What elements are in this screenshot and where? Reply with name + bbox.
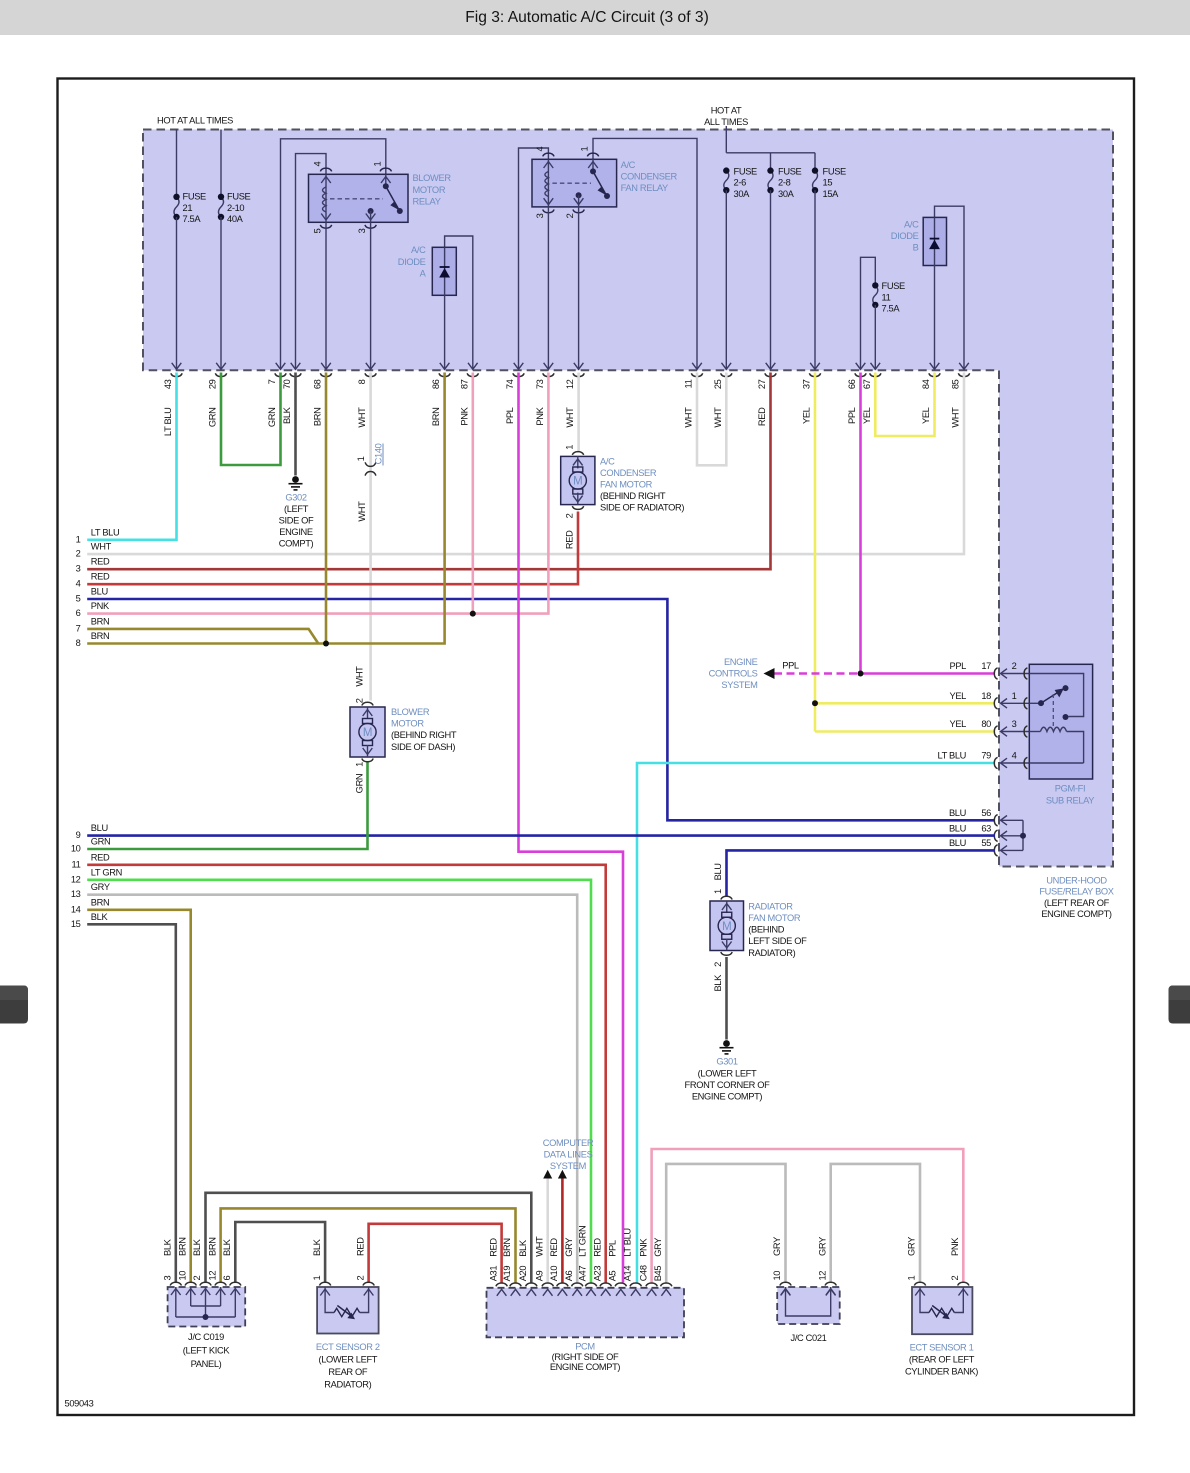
svg-text:RED: RED bbox=[549, 1238, 559, 1257]
svg-text:PNK: PNK bbox=[638, 1238, 648, 1257]
ect sensor 2 pins bbox=[319, 1282, 330, 1285]
svg-text:55: 55 bbox=[981, 838, 991, 848]
svg-text:BLOWER: BLOWER bbox=[413, 173, 452, 183]
svg-text:1: 1 bbox=[372, 162, 382, 167]
wire condenser motor RED to row4 bbox=[87, 512, 578, 585]
svg-text:5: 5 bbox=[76, 594, 81, 604]
wire C48 PNK to ECT1 bbox=[652, 1149, 964, 1283]
wire 29 internal bbox=[220, 217, 222, 369]
blu bus bracket bbox=[1022, 820, 1024, 850]
engine controls arrow bbox=[764, 668, 775, 679]
svg-text:RADIATOR: RADIATOR bbox=[748, 902, 793, 912]
svg-text:A19: A19 bbox=[502, 1266, 512, 1282]
svg-text:25: 25 bbox=[713, 379, 723, 389]
svg-text:14: 14 bbox=[71, 904, 81, 914]
svg-text:SIDE OF: SIDE OF bbox=[279, 516, 314, 526]
wire row8 BRN to 86 bbox=[87, 373, 444, 644]
svg-text:PNK: PNK bbox=[91, 601, 110, 611]
fuse 2-8 bbox=[768, 171, 773, 191]
wire row14 BRN to jc-c019 bbox=[87, 910, 191, 1282]
svg-text:ECT SENSOR 1: ECT SENSOR 1 bbox=[910, 1343, 974, 1353]
svg-text:BLU: BLU bbox=[949, 838, 966, 848]
svg-text:(LEFT: (LEFT bbox=[284, 504, 309, 514]
svg-text:2: 2 bbox=[1012, 661, 1017, 671]
svg-text:BLK: BLK bbox=[222, 1238, 232, 1256]
svg-text:COMPT): COMPT) bbox=[279, 539, 314, 549]
svg-text:RADIATOR): RADIATOR) bbox=[324, 1379, 371, 1389]
svg-text:YEL: YEL bbox=[802, 407, 812, 424]
svg-text:3: 3 bbox=[535, 213, 545, 218]
junction PPL 17 bbox=[858, 671, 864, 677]
svg-text:21: 21 bbox=[183, 203, 193, 213]
wire 68 BRN drop bbox=[325, 373, 328, 644]
wire 84 internal bbox=[934, 266, 936, 370]
svg-text:ECT SENSOR 2: ECT SENSOR 2 bbox=[316, 1342, 380, 1352]
svg-text:PPL: PPL bbox=[782, 661, 799, 671]
svg-text:1: 1 bbox=[76, 534, 81, 544]
svg-text:(LOWER LEFT: (LOWER LEFT bbox=[318, 1354, 377, 1364]
fuse 11 bbox=[873, 285, 878, 305]
svg-text:SYSTEM: SYSTEM bbox=[550, 1161, 586, 1171]
wire fuse21 feed bbox=[176, 130, 178, 197]
svg-text:12: 12 bbox=[71, 874, 81, 884]
svg-text:WHT: WHT bbox=[951, 407, 961, 428]
svg-text:37: 37 bbox=[802, 379, 812, 389]
j/c c019 box bbox=[168, 1287, 246, 1327]
svg-text:GRY: GRY bbox=[91, 882, 110, 892]
condenser relay pin 3 arc bbox=[543, 210, 554, 213]
svg-text:A/C: A/C bbox=[621, 160, 636, 170]
wire 25 internal bbox=[725, 190, 727, 369]
ground G302 bbox=[292, 476, 299, 483]
wire row13 GRY to A6 bbox=[87, 895, 577, 1283]
wire 85 WHT to row2 bbox=[87, 373, 964, 555]
pgm-fi link dashed bbox=[1052, 694, 1054, 728]
wire 67 internal bbox=[874, 305, 876, 369]
svg-text:GRN: GRN bbox=[208, 408, 218, 428]
a/c diode B box bbox=[923, 217, 946, 265]
wire 73 PNK to row6 bbox=[87, 373, 548, 614]
svg-text:WHT: WHT bbox=[357, 501, 367, 522]
radiator fan motor bbox=[710, 901, 744, 951]
svg-text:BLK: BLK bbox=[192, 1238, 202, 1256]
svg-text:UNDER-HOOD: UNDER-HOOD bbox=[1046, 876, 1107, 886]
svg-text:10: 10 bbox=[177, 1271, 187, 1281]
svg-text:12: 12 bbox=[817, 1271, 827, 1281]
svg-text:2: 2 bbox=[192, 1276, 202, 1281]
fuse 2-10 bbox=[219, 197, 224, 217]
svg-text:BLK: BLK bbox=[518, 1239, 528, 1257]
computer data arrow WHT bbox=[543, 1170, 552, 1179]
wire row12 LT GRN to A47 bbox=[87, 880, 591, 1283]
blower relay pin 3 bbox=[368, 208, 374, 214]
svg-text:PNK: PNK bbox=[535, 406, 545, 425]
wire B45 GRY to jc-c021 bbox=[666, 1164, 785, 1283]
j/c c021 pins bbox=[780, 1282, 791, 1285]
svg-text:10: 10 bbox=[772, 1271, 782, 1281]
svg-text:1: 1 bbox=[907, 1276, 917, 1281]
right edge tab bbox=[1169, 986, 1190, 1024]
wire YEL 18 row bbox=[815, 702, 995, 705]
svg-text:ENGINE COMPT): ENGINE COMPT) bbox=[1041, 909, 1112, 919]
connector C140 bbox=[365, 462, 376, 466]
under-hood fuse/relay box region bbox=[143, 130, 1113, 867]
svg-text:6: 6 bbox=[222, 1276, 232, 1281]
condenser motor pin2 arc bbox=[572, 506, 583, 509]
wire 12 WHT to condenser motor bbox=[577, 373, 580, 452]
svg-text:BLK: BLK bbox=[91, 912, 109, 922]
svg-text:(BEHIND RIGHT: (BEHIND RIGHT bbox=[600, 491, 666, 501]
svg-text:PANEL): PANEL) bbox=[191, 1359, 222, 1369]
ect sensor 1 box bbox=[912, 1287, 972, 1334]
svg-text:9: 9 bbox=[76, 830, 81, 840]
svg-text:2: 2 bbox=[354, 698, 364, 703]
svg-text:18: 18 bbox=[981, 691, 991, 701]
svg-text:RED: RED bbox=[488, 1238, 498, 1257]
junction YEL 18 bbox=[812, 700, 818, 706]
a/c diode A element bbox=[444, 247, 446, 295]
condenser relay pin 4 arc bbox=[543, 153, 554, 156]
left edge tab bbox=[0, 986, 28, 1024]
wire row7 BRN bbox=[87, 629, 318, 644]
junction row6 x87 bbox=[470, 611, 476, 617]
svg-text:BRN: BRN bbox=[91, 631, 110, 641]
ground G301 bbox=[723, 1040, 730, 1047]
blower relay pin 4 arc bbox=[320, 168, 331, 171]
svg-text:RED: RED bbox=[757, 407, 767, 426]
wire 74 PPL to A5 bbox=[519, 373, 624, 1283]
svg-text:G302: G302 bbox=[285, 493, 307, 503]
svg-text:A6: A6 bbox=[564, 1270, 574, 1281]
exit connector arcs bbox=[171, 373, 182, 376]
svg-text:SIDE OF DASH): SIDE OF DASH) bbox=[391, 742, 455, 752]
blower relay pin 1 arc bbox=[380, 168, 391, 171]
svg-text:(RIGHT SIDE OF: (RIGHT SIDE OF bbox=[552, 1352, 619, 1362]
svg-text:3: 3 bbox=[76, 564, 81, 574]
svg-text:PPL: PPL bbox=[505, 407, 515, 424]
svg-text:SUB RELAY: SUB RELAY bbox=[1046, 796, 1094, 806]
wire jc-c019 pin2 BLK to A20 bbox=[206, 1193, 532, 1283]
svg-text:BRN: BRN bbox=[431, 408, 441, 427]
fuse 15 bbox=[813, 171, 818, 191]
condenser relay pin 2 bbox=[576, 192, 582, 198]
svg-text:LT BLU: LT BLU bbox=[622, 1228, 632, 1257]
svg-text:BRN: BRN bbox=[177, 1237, 187, 1256]
svg-text:BLOWER: BLOWER bbox=[391, 707, 430, 717]
wire radiator BLK ground lead bbox=[725, 957, 728, 1040]
svg-text:40A: 40A bbox=[227, 214, 244, 224]
wire radiator BLU to pin55 bbox=[727, 850, 996, 897]
condenser relay pin 2 arc bbox=[573, 210, 584, 213]
pgm-fi switch bbox=[1029, 702, 1041, 704]
svg-text:HOT AT ALL TIMES: HOT AT ALL TIMES bbox=[157, 116, 233, 126]
svg-text:CONDENSER: CONDENSER bbox=[600, 468, 657, 478]
svg-text:A23: A23 bbox=[592, 1266, 602, 1282]
wire 43 internal bbox=[176, 217, 178, 369]
a/c diode B loop bbox=[935, 206, 965, 369]
svg-text:RED: RED bbox=[91, 572, 110, 582]
svg-text:(REAR OF LEFT: (REAR OF LEFT bbox=[909, 1355, 975, 1365]
svg-text:43: 43 bbox=[163, 379, 173, 389]
svg-text:27: 27 bbox=[757, 379, 767, 389]
condenser relay coil bbox=[547, 159, 549, 207]
svg-text:M: M bbox=[573, 476, 582, 488]
wire 8 WHT to blower bbox=[369, 373, 372, 701]
condenser motor pin1 arc bbox=[572, 452, 583, 455]
blower motor relay box bbox=[309, 174, 409, 222]
svg-text:509043: 509043 bbox=[65, 1399, 94, 1409]
svg-text:PNK: PNK bbox=[459, 406, 469, 425]
radiator motor pin2 arc bbox=[721, 952, 732, 955]
wire ECT2 pin2 RED to A31 bbox=[369, 1224, 502, 1283]
svg-text:FAN MOTOR: FAN MOTOR bbox=[600, 480, 653, 490]
wire row15 BLK to jc-c019 bbox=[87, 924, 176, 1282]
svg-text:1: 1 bbox=[713, 889, 723, 894]
svg-text:GRY: GRY bbox=[772, 1237, 782, 1256]
svg-text:J/C C021: J/C C021 bbox=[791, 1333, 827, 1343]
wire 70 BLK ground lead bbox=[294, 373, 297, 476]
blower relay switch bbox=[385, 174, 387, 186]
svg-text:7.5A: 7.5A bbox=[882, 304, 901, 314]
svg-text:PCM: PCM bbox=[575, 1342, 595, 1352]
radiator motor pin1 arc bbox=[721, 896, 732, 899]
svg-text:M: M bbox=[363, 727, 372, 739]
svg-text:CONDENSER: CONDENSER bbox=[621, 172, 678, 182]
svg-text:PGM-FI: PGM-FI bbox=[1055, 784, 1085, 794]
wire 11-25 WHT loop bbox=[697, 373, 726, 466]
wire PPL 17 row bbox=[861, 672, 996, 675]
svg-text:2: 2 bbox=[355, 1276, 365, 1281]
svg-text:GRY: GRY bbox=[907, 1237, 917, 1256]
svg-text:LT BLU: LT BLU bbox=[937, 751, 966, 761]
a/c condenser fan relay box bbox=[532, 159, 617, 207]
pgm-fi sub relay box bbox=[1029, 664, 1092, 779]
svg-text:DIODE: DIODE bbox=[398, 257, 426, 267]
fuse 21 bbox=[174, 197, 179, 217]
svg-text:8: 8 bbox=[76, 638, 81, 648]
svg-text:Fig 3: Automatic A/C Circuit (: Fig 3: Automatic A/C Circuit (3 of 3) bbox=[465, 9, 709, 26]
svg-text:63: 63 bbox=[981, 823, 991, 833]
svg-text:GRN: GRN bbox=[91, 837, 111, 847]
svg-text:SIDE OF RADIATOR): SIDE OF RADIATOR) bbox=[600, 503, 684, 513]
svg-text:7: 7 bbox=[267, 379, 277, 384]
wire 66 PPL drop bbox=[859, 373, 862, 674]
condenser relay switch bbox=[592, 159, 594, 171]
svg-text:WHT: WHT bbox=[534, 1236, 544, 1257]
svg-text:BLU: BLU bbox=[949, 808, 966, 818]
svg-text:J/C C019: J/C C019 bbox=[188, 1332, 224, 1342]
svg-text:LT BLU: LT BLU bbox=[163, 408, 173, 437]
svg-text:(BEHIND RIGHT: (BEHIND RIGHT bbox=[391, 730, 457, 740]
svg-text:GRY: GRY bbox=[653, 1238, 663, 1257]
ect sensor 1 pins bbox=[914, 1282, 925, 1285]
svg-text:4: 4 bbox=[535, 147, 545, 152]
svg-text:REAR OF: REAR OF bbox=[328, 1367, 368, 1377]
wire row10 GRN to blower bbox=[87, 761, 367, 849]
wire 43 LT BLU to row1 bbox=[87, 373, 176, 540]
svg-text:A/C: A/C bbox=[411, 245, 426, 255]
condenser relay link dashed bbox=[552, 182, 591, 184]
svg-text:WHT: WHT bbox=[565, 407, 575, 428]
svg-text:FUSE: FUSE bbox=[778, 166, 802, 176]
svg-text:67: 67 bbox=[862, 379, 872, 389]
fuse 2-6 bbox=[724, 171, 729, 191]
svg-text:BLK: BLK bbox=[312, 1238, 322, 1256]
wire 12 internal bbox=[578, 207, 580, 369]
svg-text:A5: A5 bbox=[608, 1270, 618, 1281]
wire row11 RED to A23 bbox=[87, 865, 606, 1283]
svg-text:2: 2 bbox=[565, 213, 575, 218]
svg-text:30A: 30A bbox=[778, 189, 795, 199]
svg-text:2: 2 bbox=[950, 1276, 960, 1281]
svg-text:3: 3 bbox=[357, 228, 367, 233]
svg-text:79: 79 bbox=[981, 751, 991, 761]
svg-text:2: 2 bbox=[76, 549, 81, 559]
svg-text:87: 87 bbox=[459, 379, 469, 389]
svg-text:B45: B45 bbox=[653, 1266, 663, 1282]
svg-text:(LEFT KICK: (LEFT KICK bbox=[183, 1346, 231, 1356]
wire 66 internal bbox=[861, 257, 876, 369]
svg-text:ENGINE: ENGINE bbox=[724, 657, 758, 667]
ect sensor 1 thermistor bbox=[920, 1287, 929, 1313]
wire condenser relay pin1 to 11 bbox=[593, 138, 697, 369]
svg-text:BRN: BRN bbox=[91, 616, 110, 626]
svg-text:74: 74 bbox=[505, 379, 515, 389]
pgm-fi switch feed bbox=[1029, 674, 1083, 717]
svg-text:RADIATOR): RADIATOR) bbox=[748, 948, 795, 958]
svg-text:BLU: BLU bbox=[91, 823, 108, 833]
blower motor pin2 arc bbox=[362, 702, 373, 705]
wire row5 BLU to pin56 bbox=[87, 599, 995, 820]
wire 37 YEL drop bbox=[814, 373, 817, 732]
svg-text:BLK: BLK bbox=[163, 1238, 173, 1256]
svg-text:FRONT CORNER OF: FRONT CORNER OF bbox=[685, 1080, 771, 1090]
svg-text:15A: 15A bbox=[823, 189, 840, 199]
svg-text:3: 3 bbox=[1012, 719, 1017, 729]
svg-text:A31: A31 bbox=[488, 1266, 498, 1282]
svg-text:COMPUTER: COMPUTER bbox=[543, 1138, 594, 1148]
wire 86 internal bbox=[444, 295, 446, 369]
wire fuse2-10 feed bbox=[220, 130, 222, 197]
svg-text:4: 4 bbox=[1012, 751, 1017, 761]
svg-text:RED: RED bbox=[91, 557, 110, 567]
wire blower relay pin4 to 70 bbox=[296, 154, 327, 369]
pcm box bbox=[487, 1288, 685, 1338]
svg-text:FUSE: FUSE bbox=[882, 281, 906, 291]
svg-text:FUSE: FUSE bbox=[183, 192, 207, 202]
svg-text:YEL: YEL bbox=[862, 407, 872, 424]
svg-text:C48: C48 bbox=[638, 1265, 648, 1281]
wire 37 internal bbox=[814, 190, 816, 369]
svg-text:GRN: GRN bbox=[354, 774, 364, 794]
svg-text:12: 12 bbox=[565, 379, 575, 389]
svg-text:MOTOR: MOTOR bbox=[413, 185, 446, 195]
svg-text:68: 68 bbox=[313, 379, 323, 389]
svg-text:17: 17 bbox=[981, 661, 991, 671]
svg-text:56: 56 bbox=[981, 808, 991, 818]
svg-text:GRY: GRY bbox=[564, 1238, 574, 1257]
svg-text:86: 86 bbox=[431, 379, 441, 389]
svg-text:RELAY: RELAY bbox=[413, 196, 441, 206]
svg-text:WHT: WHT bbox=[354, 666, 364, 687]
svg-text:A/C: A/C bbox=[600, 457, 615, 467]
svg-text:RED: RED bbox=[592, 1238, 602, 1257]
pgm-fi coil bbox=[1029, 731, 1040, 733]
svg-text:RED: RED bbox=[91, 852, 110, 862]
svg-text:FUSE: FUSE bbox=[823, 166, 847, 176]
svg-text:1: 1 bbox=[312, 1276, 322, 1281]
svg-text:B: B bbox=[913, 243, 919, 253]
svg-text:YEL: YEL bbox=[921, 407, 931, 424]
svg-text:WHT: WHT bbox=[713, 407, 723, 428]
svg-text:70: 70 bbox=[282, 379, 292, 389]
svg-text:80: 80 bbox=[981, 719, 991, 729]
svg-text:2: 2 bbox=[565, 513, 575, 518]
blower motor bbox=[350, 707, 385, 757]
svg-text:BRN: BRN bbox=[207, 1237, 217, 1256]
wire PPL dashed to engine controls bbox=[770, 672, 857, 675]
svg-text:BLU: BLU bbox=[713, 863, 723, 880]
wire 68 internal bbox=[325, 222, 327, 369]
wire blower relay pin1 to 7 bbox=[281, 139, 386, 369]
blower relay coil bbox=[325, 174, 327, 222]
a/c condenser fan motor bbox=[561, 456, 595, 504]
hot feed bus bbox=[726, 126, 815, 171]
svg-text:PPL: PPL bbox=[847, 407, 857, 424]
j/c c019 internal bbox=[176, 1287, 236, 1317]
wire condenser relay pin4 to 74 bbox=[519, 148, 549, 369]
svg-text:MOTOR: MOTOR bbox=[391, 719, 424, 729]
svg-text:LT BLU: LT BLU bbox=[91, 527, 120, 537]
svg-text:BLK: BLK bbox=[282, 406, 292, 424]
svg-text:ENGINE COMPT): ENGINE COMPT) bbox=[692, 1092, 763, 1102]
junction row8 x68 bbox=[323, 641, 329, 647]
j/c c021 box bbox=[777, 1287, 840, 1324]
svg-text:5: 5 bbox=[313, 228, 323, 233]
wire 27 RED to row3 bbox=[87, 373, 770, 570]
svg-text:BRN: BRN bbox=[502, 1238, 512, 1257]
svg-text:1: 1 bbox=[356, 456, 366, 461]
svg-text:FUSE/RELAY BOX: FUSE/RELAY BOX bbox=[1039, 887, 1113, 897]
svg-text:BLU: BLU bbox=[91, 587, 108, 597]
svg-text:GRY: GRY bbox=[817, 1237, 827, 1256]
svg-text:11: 11 bbox=[72, 859, 81, 869]
svg-text:30A: 30A bbox=[734, 189, 751, 199]
svg-text:8: 8 bbox=[357, 379, 367, 384]
a/c diode B element bbox=[934, 217, 936, 265]
j/c c019 pins bbox=[170, 1282, 181, 1285]
title bar bbox=[0, 0, 1190, 35]
svg-text:A47: A47 bbox=[578, 1266, 588, 1282]
svg-text:BRN: BRN bbox=[91, 897, 110, 907]
svg-text:4: 4 bbox=[76, 579, 81, 589]
blower relay link dashed bbox=[330, 198, 383, 200]
svg-text:DATA LINES: DATA LINES bbox=[544, 1150, 593, 1160]
wire 67-84 YEL loop bbox=[875, 373, 934, 437]
svg-text:(LEFT REAR OF: (LEFT REAR OF bbox=[1044, 898, 1110, 908]
svg-text:15: 15 bbox=[71, 919, 81, 929]
svg-text:PPL: PPL bbox=[608, 1240, 618, 1257]
svg-text:7.5A: 7.5A bbox=[183, 214, 202, 224]
svg-text:10: 10 bbox=[71, 844, 81, 854]
svg-text:ENGINE: ENGINE bbox=[279, 527, 313, 537]
svg-text:A9: A9 bbox=[534, 1270, 544, 1281]
svg-text:7: 7 bbox=[76, 623, 81, 633]
svg-text:DIODE: DIODE bbox=[891, 231, 919, 241]
wire 27 internal bbox=[770, 190, 772, 369]
svg-text:C140: C140 bbox=[374, 443, 384, 464]
svg-text:PPL: PPL bbox=[949, 661, 966, 671]
